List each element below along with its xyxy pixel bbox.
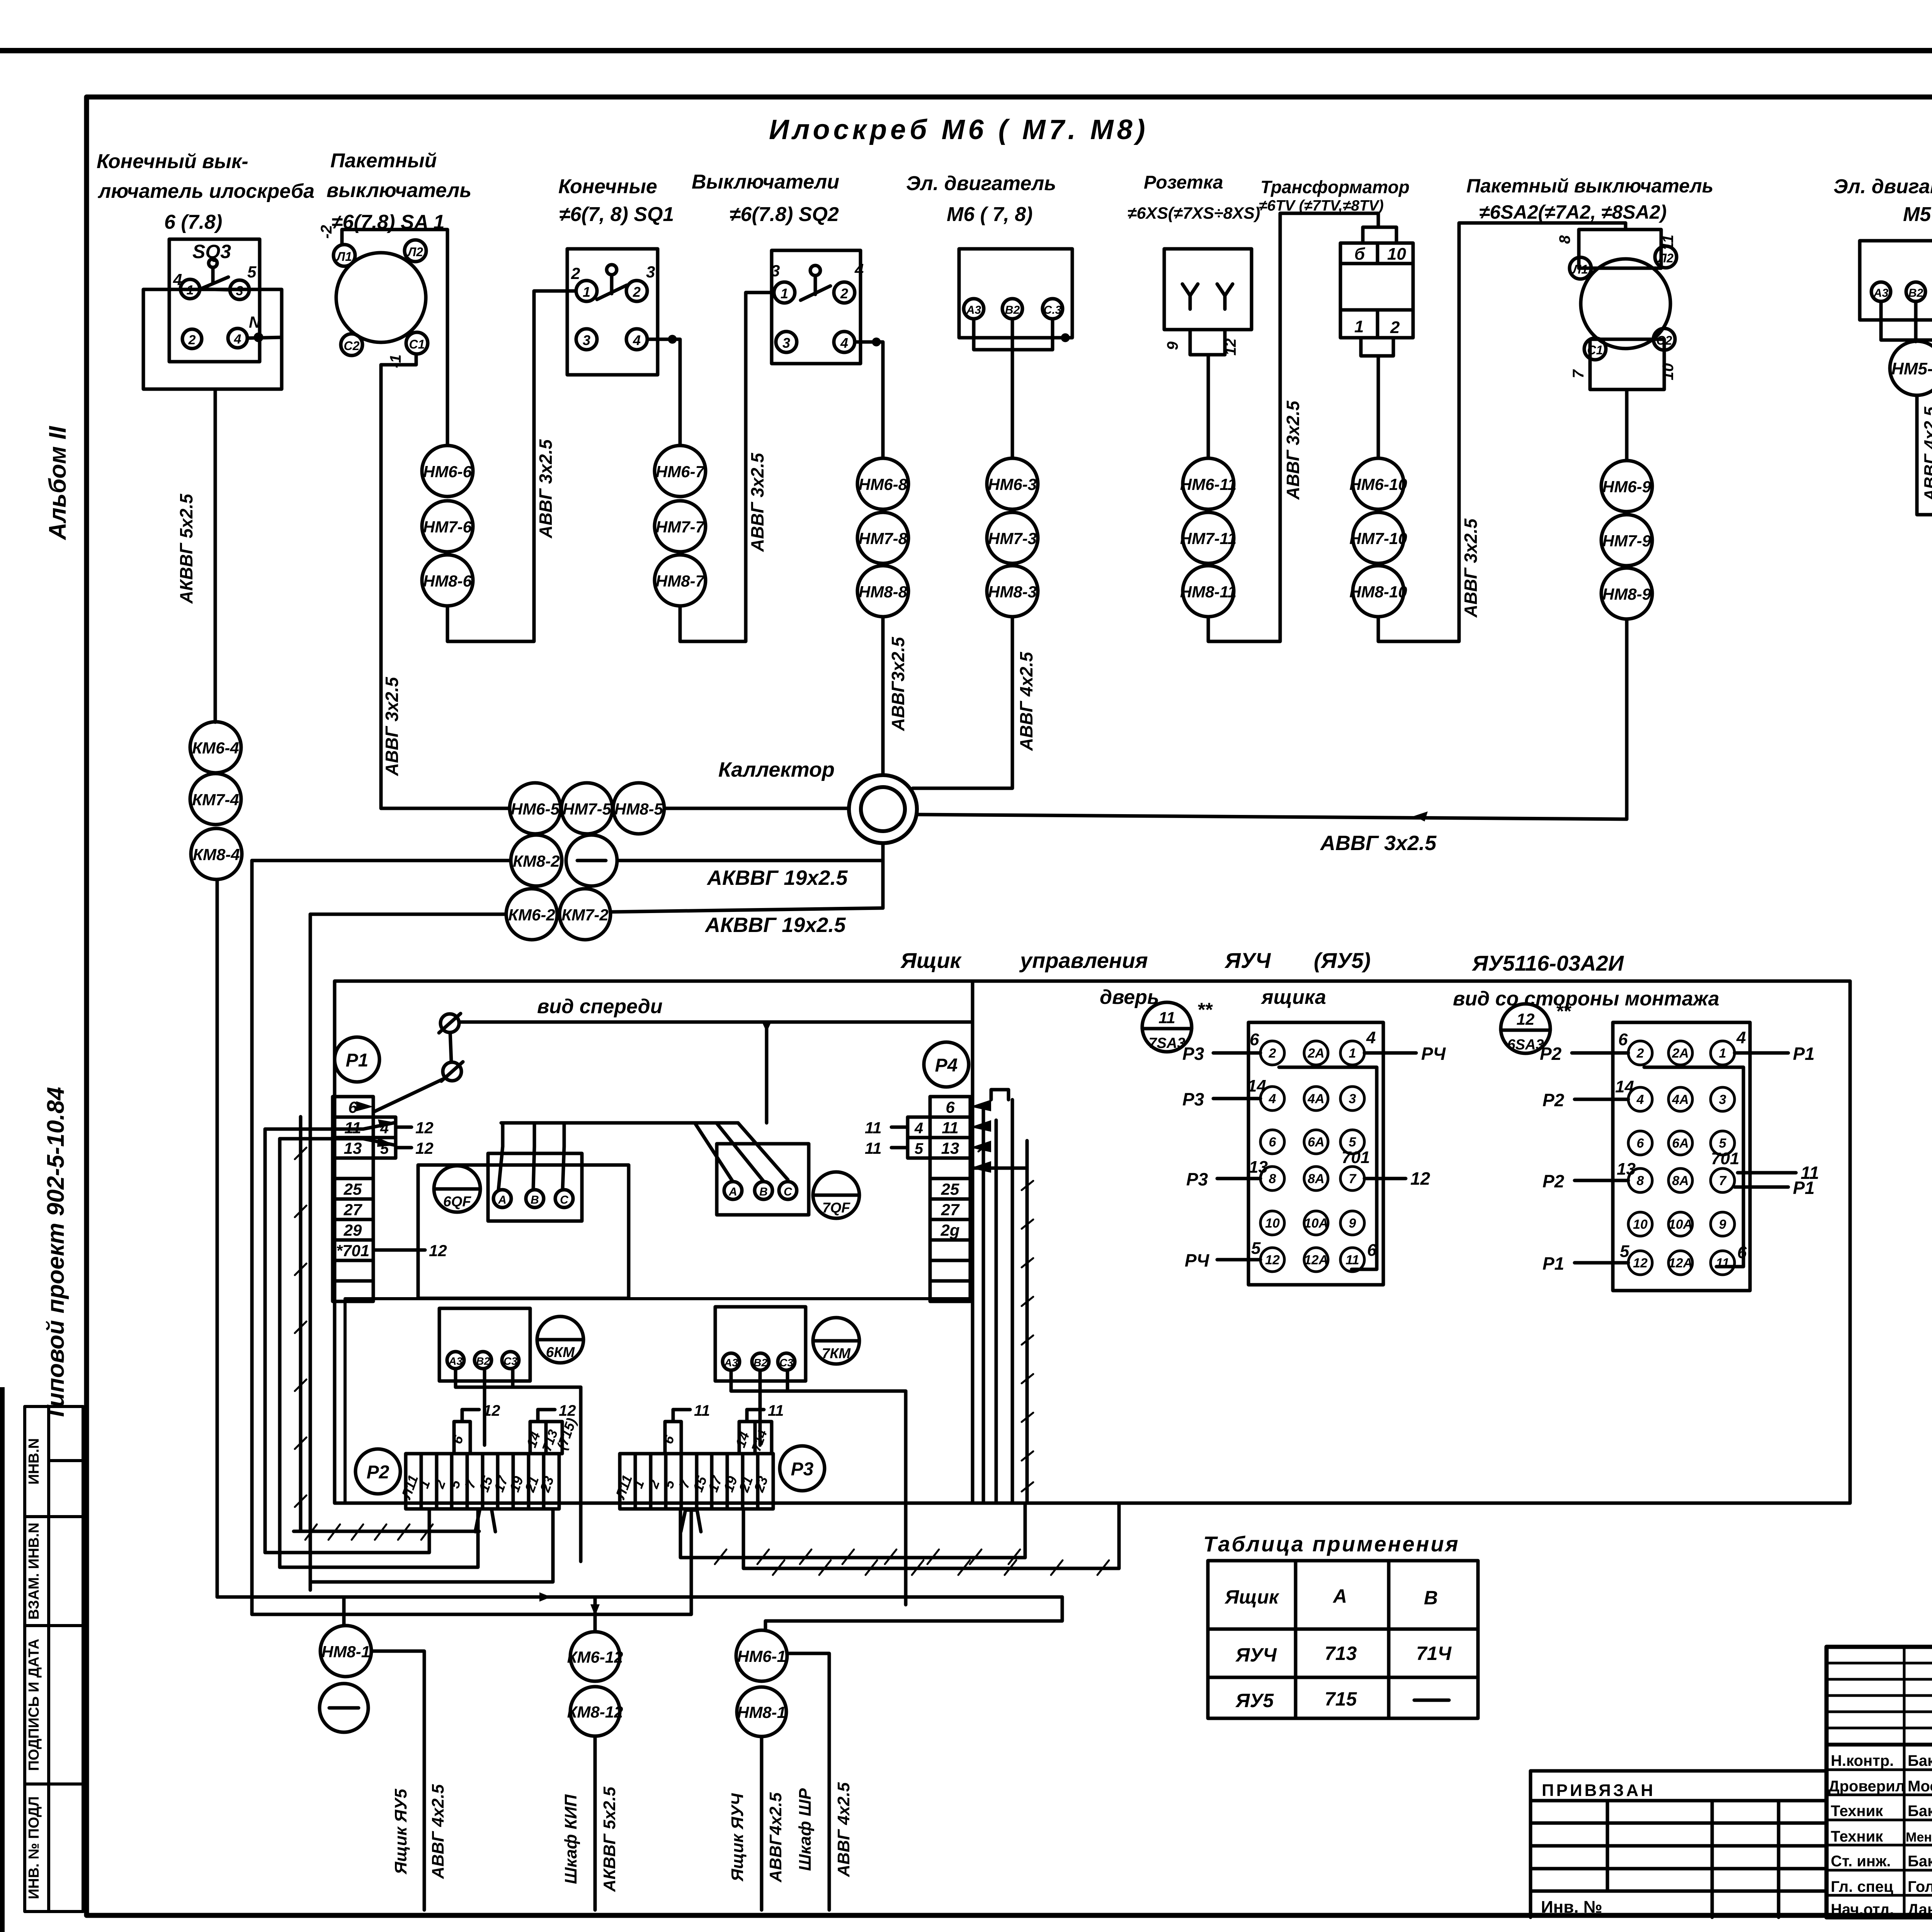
front view top wire bus <box>459 1020 973 1024</box>
hatched return bus 1 <box>680 1509 1025 1558</box>
svg-text:В2: В2 <box>476 1355 490 1367</box>
svg-text:КМ7-2: КМ7-2 <box>561 906 609 924</box>
node NM8-5 <box>613 783 664 834</box>
door map right terminals col1 <box>1628 1041 1652 1065</box>
svg-text:715: 715 <box>1325 1688 1357 1710</box>
wire NM8-10 U up to SA2 top bus <box>1378 223 1626 641</box>
svg-text:НМ8-1: НМ8-1 <box>321 1643 370 1661</box>
wire transformer to NM6-10 <box>1377 356 1380 458</box>
svg-text:12: 12 <box>429 1242 447 1260</box>
svg-text:Н.контр.: Н.контр. <box>1831 1752 1894 1769</box>
svg-text:6 (7.8): 6 (7.8) <box>164 211 222 233</box>
svg-text:АВВГ 3х2.5: АВВГ 3х2.5 <box>536 439 556 539</box>
svg-text:управления: управления <box>1019 948 1148 973</box>
svg-text:12: 12 <box>1265 1253 1280 1267</box>
svg-text:С2: С2 <box>344 339 360 353</box>
svg-text:5: 5 <box>915 1140 923 1157</box>
svg-text:4: 4 <box>1366 1028 1376 1047</box>
wire NM5-2 to YU3 drop <box>1917 395 1932 515</box>
svg-text:А: А <box>498 1194 507 1206</box>
node NM6-5 <box>510 783 561 834</box>
header motor M5 <box>1833 175 1932 226</box>
terminal box A3B2C3 right <box>715 1307 806 1381</box>
svg-text:НМ6-11: НМ6-11 <box>1180 475 1236 493</box>
svg-text:12: 12 <box>559 1402 576 1419</box>
door map right terminals col2 <box>1668 1041 1692 1065</box>
svg-text:М6 ( 7, 8): М6 ( 7, 8) <box>947 203 1033 226</box>
svg-text:5: 5 <box>1349 1135 1357 1150</box>
node KM7-2 <box>560 889 611 940</box>
wire NM8-11 U up to transformer top <box>1208 213 1378 641</box>
svg-text:ящика: ящика <box>1260 986 1326 1009</box>
svg-text:НМ8-9: НМ8-9 <box>1602 585 1651 603</box>
end switch SQ1 <box>567 249 658 375</box>
svg-text:Каллектор: Каллектор <box>718 758 835 781</box>
svg-text:ЯУЧ: ЯУЧ <box>1235 1644 1277 1666</box>
svg-text:Данилов: Данилов <box>1908 1901 1932 1918</box>
svg-text:В: В <box>759 1185 768 1198</box>
svg-text:вид со стороны монтажа: вид со стороны монтажа <box>1453 988 1719 1010</box>
svg-text:Гольцман: Гольцман <box>1908 1878 1932 1895</box>
svg-text:Конечные: Конечные <box>558 175 657 198</box>
svg-text:Розетка: Розетка <box>1144 172 1223 193</box>
bus KM8-2 row <box>252 859 511 862</box>
svg-text:4: 4 <box>1736 1028 1746 1047</box>
svg-text:НМ7-5: НМ7-5 <box>563 800 612 818</box>
collector node <box>849 775 917 843</box>
svg-text:АВВГ 4х2.5: АВВГ 4х2.5 <box>1921 406 1932 502</box>
wire SA2 to NM6-9 <box>1625 389 1629 461</box>
svg-text:Шкаф ШР: Шкаф ШР <box>796 1788 815 1871</box>
svg-text:Р3: Р3 <box>1186 1169 1208 1189</box>
limit switch SQ3 <box>143 239 282 389</box>
svg-text:Р1: Р1 <box>1793 1044 1815 1064</box>
wire NM8-7 U to SQ2 pin1 <box>680 293 774 641</box>
title block frame <box>1827 1647 1932 1917</box>
wire L1 up over to NM6-6 chain <box>342 230 447 446</box>
svg-text:В2: В2 <box>1908 287 1923 299</box>
svg-text:А3: А3 <box>1873 287 1889 299</box>
svg-text:N: N <box>249 313 261 331</box>
svg-text:Р4: Р4 <box>935 1055 958 1076</box>
title Iloskreb M6 <box>769 114 1149 145</box>
relay P4 <box>924 1042 969 1087</box>
svg-text:НМ8-7: НМ8-7 <box>656 572 705 590</box>
svg-text:АКВВГ 5х2.5: АКВВГ 5х2.5 <box>176 493 196 604</box>
svg-text:11: 11 <box>1660 235 1677 251</box>
svg-text:НМ6-9: НМ6-9 <box>1602 478 1651 496</box>
svg-text:В: В <box>531 1194 539 1206</box>
header socket 6XS <box>1128 172 1260 223</box>
svg-text:11: 11 <box>1345 1253 1359 1267</box>
node NM7-6 <box>422 501 473 552</box>
svg-text:НМ7-6: НМ7-6 <box>423 518 472 536</box>
svg-text:АВВГ4х2.5: АВВГ4х2.5 <box>766 1792 785 1883</box>
header packet switch SA2 <box>1466 175 1713 223</box>
wire NM8-8 to collector <box>881 617 885 774</box>
svg-text:Р3: Р3 <box>791 1459 814 1480</box>
svg-text:4: 4 <box>1636 1092 1644 1107</box>
svg-text:4: 4 <box>234 332 241 347</box>
svg-text:3: 3 <box>1719 1092 1726 1107</box>
svg-text:В2: В2 <box>753 1357 767 1369</box>
svg-text:Мосеенко: Мосеенко <box>1908 1778 1932 1795</box>
breaker 7QF <box>813 1172 859 1218</box>
svg-text:Илоскреб М6 ( М7. М8): Илоскреб М6 ( М7. М8) <box>769 114 1149 145</box>
node KM8-2 <box>511 835 562 886</box>
svg-text:3: 3 <box>771 262 780 280</box>
svg-text:НМ8-1: НМ8-1 <box>737 1703 786 1721</box>
node KM8-12 <box>570 1687 620 1736</box>
svg-text:11: 11 <box>865 1119 882 1137</box>
svg-text:Ст. инж.: Ст. инж. <box>1831 1853 1891 1870</box>
svg-text:Л2: Л2 <box>1657 251 1673 265</box>
svg-text:6: 6 <box>1618 1030 1628 1049</box>
svg-text:РЧ: РЧ <box>1185 1250 1210 1270</box>
svg-text:НМ7-9: НМ7-9 <box>1602 532 1651 550</box>
svg-text:4: 4 <box>914 1120 923 1137</box>
svg-text:2: 2 <box>1390 318 1400 337</box>
label front view <box>537 995 663 1018</box>
svg-text:Трансформатор: Трансформатор <box>1260 177 1410 197</box>
svg-text:27: 27 <box>941 1201 960 1219</box>
relay P2 <box>355 1449 400 1494</box>
svg-text:В2: В2 <box>1005 304 1020 316</box>
svg-text:701: 701 <box>1711 1149 1739 1168</box>
wire NM6-1 to ShR <box>787 1653 829 1910</box>
svg-text:АВВГ 3х2.5: АВВГ 3х2.5 <box>1283 400 1303 500</box>
svg-text:ЯУЧ: ЯУЧ <box>1224 948 1271 973</box>
svg-text:ИНВ. № ПОДЛ: ИНВ. № ПОДЛ <box>26 1796 42 1899</box>
svg-text:13: 13 <box>344 1139 362 1157</box>
svg-text:1: 1 <box>1719 1046 1726 1061</box>
svg-text:КМ6-4: КМ6-4 <box>192 739 239 757</box>
wire socket to NM6-11 <box>1207 355 1210 458</box>
wire NM8-1 to YU5 <box>371 1651 424 1910</box>
svg-text:А3: А3 <box>448 1355 463 1367</box>
svg-text:7: 7 <box>1719 1173 1727 1188</box>
svg-text:12: 12 <box>1222 338 1239 356</box>
packet switch SA1 <box>318 225 428 368</box>
contactor 7KM <box>813 1318 859 1364</box>
svg-text:1: 1 <box>583 284 590 300</box>
wire NM8-3 to collector <box>913 617 1012 788</box>
svg-text:С.3: С.3 <box>1044 304 1062 316</box>
binding table <box>1531 1771 1827 1917</box>
svg-text:Бакшеева: Бакшеева <box>1908 1853 1932 1870</box>
svg-text:11: 11 <box>1158 1009 1175 1027</box>
svg-text:7: 7 <box>1349 1172 1357 1186</box>
relay P1 <box>335 1037 379 1082</box>
node NM8-10 <box>1353 566 1404 617</box>
node NM8-1 right <box>737 1687 786 1736</box>
node KM8-4 <box>191 828 242 879</box>
wire NM8-9 down to bus <box>1625 619 1629 819</box>
svg-text:Р3: Р3 <box>1182 1089 1204 1109</box>
svg-text:8: 8 <box>1637 1173 1644 1188</box>
node NM6-9 <box>1601 461 1652 512</box>
svg-text:АВВГ 3х2.5: АВВГ 3х2.5 <box>1320 832 1437 855</box>
ground fork symbol <box>475 1509 495 1532</box>
svg-text:≠6XS(≠7XS÷8XS): ≠6XS(≠7XS÷8XS) <box>1128 204 1260 223</box>
svg-text:ЯУ5116-03А2И: ЯУ5116-03А2И <box>1471 951 1624 975</box>
header motor M6 <box>906 172 1056 226</box>
svg-text:Конечный вык-: Конечный вык- <box>97 150 248 173</box>
svg-text:Ящик: Ящик <box>1224 1586 1280 1608</box>
svg-text:КМ8-4: КМ8-4 <box>193 845 240 864</box>
application table <box>1203 1532 1460 1556</box>
svg-text:НМ8-8: НМ8-8 <box>859 583 908 601</box>
node NM7-7 <box>655 501 706 552</box>
svg-text:НМ8-6: НМ8-6 <box>423 572 472 590</box>
svg-text:7QF: 7QF <box>822 1200 850 1216</box>
svg-text:Нач.отд.: Нач.отд. <box>1831 1901 1894 1918</box>
svg-text:А: А <box>1332 1585 1347 1607</box>
node KM6-4 <box>190 722 241 773</box>
left feeds to P1 <box>265 1128 363 1131</box>
svg-text:7: 7 <box>1570 369 1587 378</box>
motor M6 terminal box <box>959 249 1072 338</box>
node KM6-2 <box>506 889 557 940</box>
svg-text:5: 5 <box>247 263 257 281</box>
svg-text:≠6SA2(≠7А2, ≠8SА2): ≠6SA2(≠7А2, ≠8SА2) <box>1479 201 1667 223</box>
P3 terminal strip <box>612 1402 784 1509</box>
wires motor M5 <box>1881 301 1932 340</box>
socket 6XS <box>1164 249 1252 355</box>
hatched return bus 2 <box>743 1509 1119 1568</box>
svg-text:АВВГ 3х2.5: АВВГ 3х2.5 <box>382 677 402 776</box>
YU4 cabinet outer box <box>335 981 1850 1503</box>
svg-text:1: 1 <box>781 286 788 301</box>
svg-text:8: 8 <box>1269 1172 1276 1186</box>
svg-text:12: 12 <box>1633 1256 1648 1270</box>
svg-text:Техник: Техник <box>1831 1803 1883 1820</box>
svg-text:Типовой проект 902-5-10.84: Типовой проект 902-5-10.84 <box>43 1087 69 1421</box>
svg-text:РЧ: РЧ <box>1421 1044 1446 1064</box>
svg-text:9: 9 <box>1349 1216 1356 1231</box>
node NM8-6 <box>422 555 473 606</box>
svg-text:4: 4 <box>1269 1092 1276 1106</box>
svg-text:2: 2 <box>633 284 641 300</box>
svg-text:С2: С2 <box>1656 333 1672 347</box>
svg-text:71Ч: 71Ч <box>1416 1643 1452 1664</box>
svg-text:НМ6-3: НМ6-3 <box>988 475 1037 493</box>
svg-text:Р2: Р2 <box>1540 1044 1562 1064</box>
svg-text:5: 5 <box>1251 1239 1261 1258</box>
collector label <box>718 758 835 781</box>
node NM8-1 left <box>320 1626 371 1677</box>
svg-text:НМ8-3: НМ8-3 <box>988 583 1037 601</box>
svg-text:1: 1 <box>1354 317 1364 336</box>
svg-text:А: А <box>728 1185 737 1198</box>
node NM6-6 <box>422 446 473 497</box>
svg-text:дверь: дверь <box>1100 986 1159 1009</box>
wire NM8-5 to collector <box>664 807 849 810</box>
svg-text:Гл. спец: Гл. спец <box>1831 1878 1893 1895</box>
svg-text:2: 2 <box>1636 1046 1644 1061</box>
label door view <box>1100 986 1719 1010</box>
node NM8-7 <box>655 555 706 606</box>
node NM7-10 <box>1353 512 1404 563</box>
svg-text:6: 6 <box>348 1098 357 1116</box>
wire SQ1 pin4 to NM6-7 <box>647 339 680 446</box>
svg-text:6: 6 <box>1367 1241 1377 1260</box>
header transformer 6TV <box>1259 177 1410 214</box>
title block signature grid <box>1827 1743 1932 1747</box>
svg-text:3: 3 <box>1349 1092 1356 1106</box>
door circle 11/7SA3 <box>1142 1002 1192 1052</box>
door map left inner outline <box>1279 1067 1377 1269</box>
svg-text:Ящик ЯУЧ: Ящик ЯУЧ <box>728 1793 747 1881</box>
svg-text:С1: С1 <box>1587 343 1603 357</box>
packet switch SA2 <box>1556 230 1677 389</box>
svg-text:АКВВГ 5х2.5: АКВВГ 5х2.5 <box>600 1787 619 1892</box>
svg-text:НМ6-10: НМ6-10 <box>1349 475 1407 493</box>
svg-text:4: 4 <box>840 335 848 351</box>
node NM6-10 <box>1353 458 1404 509</box>
node NM7-3 <box>987 512 1038 563</box>
svg-text:Выключатели: Выключатели <box>692 171 839 193</box>
svg-text:*701: *701 <box>336 1242 369 1260</box>
svg-text:ПРИВЯЗАН: ПРИВЯЗАН <box>1542 1781 1655 1800</box>
svg-text:2А: 2А <box>1672 1046 1689 1061</box>
node NM7-9 <box>1601 515 1652 566</box>
svg-text:10: 10 <box>1633 1217 1648 1232</box>
svg-text:27: 27 <box>344 1201 362 1219</box>
P4 feed arrows and bundle <box>970 1100 991 1111</box>
door map left side links P3 P4 <box>1182 1044 1446 1270</box>
svg-text:4А: 4А <box>1307 1092 1324 1106</box>
svg-text:6: 6 <box>1250 1030 1259 1049</box>
P4 terminal strip <box>865 1097 970 1301</box>
svg-text:Пакетный: Пакетный <box>330 150 437 172</box>
svg-text:8А: 8А <box>1308 1172 1324 1186</box>
svg-text:2g: 2g <box>940 1221 959 1239</box>
svg-text:2А: 2А <box>1307 1046 1324 1061</box>
svg-text:АВВГ 4х2.5: АВВГ 4х2.5 <box>834 1782 853 1877</box>
svg-text:КМ6-2: КМ6-2 <box>508 906 555 924</box>
header YU4 cabinet <box>900 948 1624 975</box>
contactor 6KM <box>537 1316 583 1363</box>
door circle 12/6SA3 <box>1501 1004 1550 1053</box>
svg-text:≠6(7, 8) SQ1: ≠6(7, 8) SQ1 <box>559 203 674 226</box>
svg-text:12: 12 <box>1517 1010 1535 1028</box>
svg-text:Шкаф КИП: Шкаф КИП <box>561 1794 580 1884</box>
svg-text:6: 6 <box>1637 1136 1645 1151</box>
door map right inner outline <box>1644 1067 1743 1267</box>
node NM6-8 <box>857 458 908 509</box>
svg-text:8: 8 <box>1556 235 1573 244</box>
node NM8-11 <box>1183 566 1234 617</box>
door map right terminals col3 <box>1711 1041 1735 1065</box>
svg-text:А3: А3 <box>724 1357 738 1369</box>
svg-text:выключатель: выключатель <box>327 179 471 202</box>
svg-text:6SA3: 6SA3 <box>1507 1037 1544 1053</box>
svg-text:ВЗАМ. ИНВ.N: ВЗАМ. ИНВ.N <box>26 1522 42 1619</box>
svg-text:лючатель илоскреба: лючатель илоскреба <box>97 180 315 202</box>
svg-text:Эл. двигатель: Эл. двигатель <box>1833 175 1932 198</box>
svg-text:НМ7-7: НМ7-7 <box>656 518 705 536</box>
node NM6-1 <box>736 1630 787 1681</box>
node demounted <box>566 835 617 886</box>
svg-text:НМ7-11: НМ7-11 <box>1180 529 1236 548</box>
node KM6-12 <box>570 1632 620 1681</box>
svg-text:Техник: Техник <box>1831 1828 1883 1845</box>
svg-text:АВВГ 4х2.5: АВВГ 4х2.5 <box>429 1784 447 1879</box>
svg-text:3: 3 <box>583 332 590 348</box>
node NM6-3 <box>987 458 1038 509</box>
svg-text:Бакова: Бакова <box>1908 1803 1932 1820</box>
svg-text:-2: -2 <box>318 225 335 239</box>
svg-text:С: С <box>560 1194 569 1206</box>
svg-text:Р2: Р2 <box>1543 1090 1565 1110</box>
svg-text:КМ8-2: КМ8-2 <box>513 852 560 870</box>
node NM6-11 <box>1183 458 1234 509</box>
wire NM8-6 U to SQ1 pin1 <box>447 291 576 641</box>
door map right box <box>1613 1022 1750 1291</box>
svg-text:КМ7-4: КМ7-4 <box>192 791 239 809</box>
svg-text:8А: 8А <box>1672 1173 1689 1188</box>
front inner panel <box>345 1299 972 1503</box>
svg-text:2: 2 <box>571 264 580 282</box>
svg-text:11: 11 <box>865 1139 882 1157</box>
node KM7-4 <box>190 774 241 825</box>
svg-text:НМ8-10: НМ8-10 <box>1349 583 1407 601</box>
svg-text:Р1: Р1 <box>346 1050 369 1071</box>
door map right side links P1 P2 <box>1540 1044 1819 1274</box>
svg-text:Ящик ЯУ5: Ящик ЯУ5 <box>391 1789 410 1874</box>
svg-text:12: 12 <box>415 1139 434 1157</box>
wire KM8-2 bus left drop <box>250 861 254 1614</box>
svg-text:НМ8-5: НМ8-5 <box>614 800 663 818</box>
svg-text:КМ8-12: КМ8-12 <box>567 1703 623 1721</box>
svg-text:3: 3 <box>782 335 790 351</box>
svg-text:Альбом II: Альбом II <box>44 425 71 541</box>
svg-text:НМ6-1: НМ6-1 <box>737 1647 786 1665</box>
node demounted 2 <box>320 1684 368 1732</box>
svg-text:12А: 12А <box>1668 1256 1692 1270</box>
wire bus drop to ABC diagonals <box>765 1022 769 1123</box>
svg-text:6: 6 <box>1269 1135 1277 1150</box>
svg-text:5: 5 <box>1620 1242 1629 1261</box>
svg-text:**: ** <box>1197 999 1213 1020</box>
motor M5 terminal box <box>1860 241 1932 320</box>
svg-text:10: 10 <box>1387 245 1406 264</box>
svg-text:13: 13 <box>1249 1158 1268 1177</box>
svg-text:НМ6-7: НМ6-7 <box>656 463 705 481</box>
transformer 6TV <box>1340 227 1413 356</box>
svg-text:3: 3 <box>646 263 655 281</box>
svg-text:А3: А3 <box>966 304 981 316</box>
shield wire vertical hatched <box>299 1117 303 1531</box>
node NM7-5 <box>561 783 612 834</box>
svg-text:≠6TV (≠7TV,≠8TV): ≠6TV (≠7TV,≠8TV) <box>1259 197 1384 214</box>
svg-text:НМ7-10: НМ7-10 <box>1349 529 1407 548</box>
svg-text:АВВГ3х2.5: АВВГ3х2.5 <box>888 636 908 731</box>
node NM6-7 <box>655 446 706 497</box>
svg-text:б: б <box>1354 245 1366 264</box>
svg-text:С3: С3 <box>779 1357 793 1369</box>
door map left terminals col2 <box>1304 1041 1328 1065</box>
breaker 6QF <box>434 1166 480 1212</box>
svg-text:НМ7-3: НМ7-3 <box>988 529 1037 548</box>
door map left box <box>1248 1022 1383 1285</box>
node NM7-8 <box>857 512 908 563</box>
loop wire nest <box>264 1129 267 1553</box>
door map left terminals col3 <box>1340 1041 1364 1065</box>
svg-text:13: 13 <box>1617 1160 1636 1179</box>
svg-text:КМ6-12: КМ6-12 <box>567 1648 623 1666</box>
